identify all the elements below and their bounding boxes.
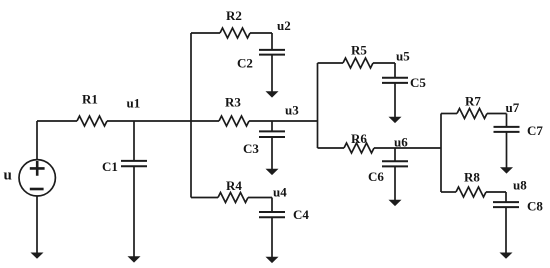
- svg-text:u4: u4: [273, 185, 287, 200]
- svg-text:R4: R4: [226, 178, 242, 193]
- svg-text:R2: R2: [226, 8, 242, 23]
- svg-text:R7: R7: [465, 94, 481, 109]
- svg-text:C5: C5: [410, 75, 426, 90]
- svg-text:u3: u3: [285, 103, 299, 118]
- svg-text:u1: u1: [127, 96, 141, 111]
- svg-text:R1: R1: [82, 92, 98, 107]
- svg-text:u8: u8: [513, 178, 527, 193]
- svg-text:C1: C1: [102, 159, 118, 174]
- svg-text:R5: R5: [351, 43, 367, 58]
- svg-text:R8: R8: [464, 170, 480, 185]
- svg-text:R6: R6: [351, 131, 367, 146]
- svg-text:u: u: [4, 168, 12, 184]
- svg-text:R3: R3: [225, 94, 241, 109]
- svg-text:C8: C8: [527, 199, 543, 214]
- svg-text:u6: u6: [394, 135, 408, 150]
- svg-text:C6: C6: [368, 169, 384, 184]
- svg-text:u2: u2: [277, 18, 291, 33]
- svg-text:C4: C4: [293, 207, 309, 222]
- svg-text:C2: C2: [237, 56, 253, 71]
- svg-text:u5: u5: [396, 49, 410, 64]
- svg-text:C7: C7: [527, 123, 543, 138]
- svg-text:C3: C3: [243, 141, 259, 156]
- svg-text:u7: u7: [506, 100, 520, 115]
